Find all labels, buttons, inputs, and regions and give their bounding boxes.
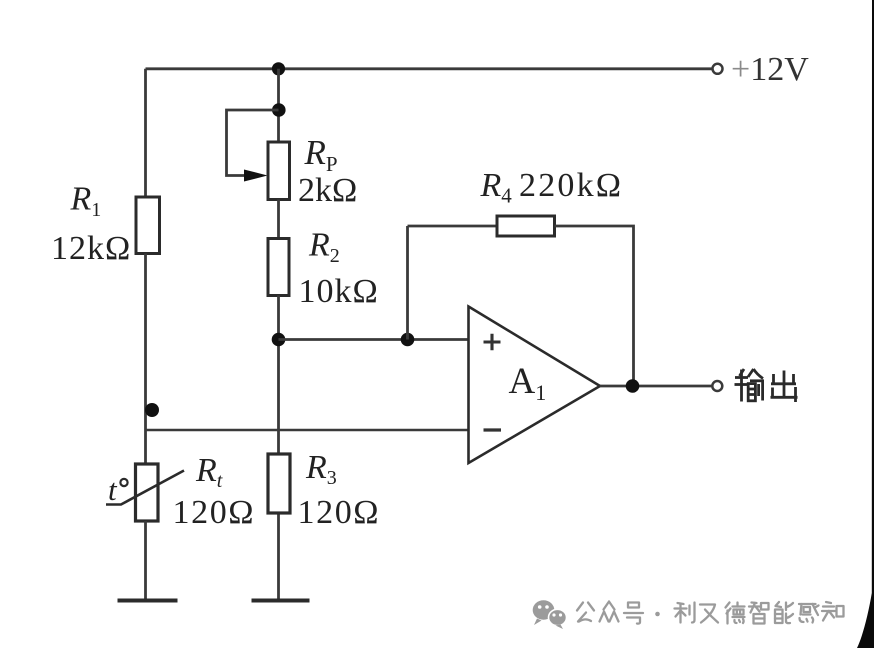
wire R3 bottom to ground	[277, 513, 280, 600]
watermark CJK gan (feel)	[799, 604, 819, 623]
watermark CJK de (virtue)	[726, 603, 745, 624]
wire left rail upper segment (top rail down to R1)	[144, 69, 147, 198]
wire potentiometer wiper loop	[227, 110, 279, 176]
watermark CJK zhi (wisdom)	[749, 603, 769, 624]
watermark CJK li (benefit)	[675, 603, 695, 623]
resistor R1 body	[136, 197, 160, 254]
svg-text:120Ω: 120Ω	[173, 494, 256, 531]
watermark CJK gong (public)	[577, 603, 594, 622]
svg-text:12kΩ: 12kΩ	[51, 230, 131, 267]
watermark CJK hao (number)	[624, 603, 643, 624]
resistor R2 body	[268, 239, 289, 296]
frame right edge black border with rounded bottom corner	[857, 0, 874, 648]
svg-text:t: t	[108, 472, 118, 507]
svg-text:Rt: Rt	[195, 452, 223, 492]
ground right bar	[252, 599, 310, 603]
wire R2 bottom down through crossing to R3 top	[277, 296, 280, 455]
wire left rail bottom segment (Rt bottom to ground)	[144, 521, 147, 600]
node E junction of noninverting wire and R4 branch	[401, 333, 415, 347]
wire R4 right horizontal and right leg down to output	[555, 226, 634, 386]
node B on left rail above inverting wire	[145, 403, 159, 417]
thermistor Rt diagonal stroke with foot	[106, 471, 184, 505]
wire inverting input horizontal from left rail to op-amp	[146, 429, 469, 431]
node A junction of top rail and RP branch	[272, 62, 285, 75]
svg-text:R1: R1	[70, 181, 102, 222]
wire left rail middle segment (R1 bottom to Rt top)	[144, 254, 147, 465]
svg-text:+12V: +12V	[731, 51, 809, 88]
wire output from op-amp apex to terminal	[600, 385, 712, 388]
svg-text:R4: R4	[480, 167, 513, 208]
node D junction R2 bottom with noninverting wire	[272, 333, 286, 347]
op-amp A1 triangle	[469, 307, 601, 464]
label output CJK chu (hand-drawn)	[771, 371, 798, 403]
svg-text:10kΩ: 10kΩ	[299, 273, 379, 310]
watermark wechat icon small bubble	[549, 609, 567, 629]
potentiometer wiper arrow head	[244, 170, 268, 182]
svg-text:2kΩ: 2kΩ	[298, 172, 357, 209]
wire RP bottom to R2 top	[277, 200, 280, 239]
thermistor Rt body	[136, 464, 159, 521]
svg-text:220kΩ: 220kΩ	[519, 167, 623, 204]
svg-text:120Ω: 120Ω	[298, 494, 381, 531]
label output CJK shu (hand-drawn)	[735, 369, 765, 402]
wire noninverting input horizontal to op-amp	[279, 338, 469, 341]
op-amp minus input sign	[484, 428, 502, 431]
terminal +12V open circle	[713, 64, 723, 74]
node F output junction with R4 leg	[626, 379, 640, 393]
watermark CJK you (again)	[700, 605, 718, 623]
svg-text:R3: R3	[305, 449, 337, 489]
watermark wechat icon big bubble	[533, 600, 555, 625]
resistor R3 body	[268, 454, 290, 513]
watermark CJK neng (ability)	[775, 602, 793, 623]
op-amp plus input sign	[484, 334, 501, 351]
ground left bar	[118, 599, 178, 603]
resistor R4 body	[497, 216, 555, 236]
svg-text:RP: RP	[304, 133, 338, 176]
wire RP branch top segment (top rail down to RP)	[277, 69, 280, 142]
potentiometer RP body	[268, 142, 290, 200]
wire R4 branch left leg up	[406, 226, 409, 340]
watermark middle dot	[655, 612, 660, 617]
wire top rail from R1 top to +12V terminal	[146, 67, 712, 70]
svg-text:R2: R2	[308, 227, 340, 268]
output terminal open circle	[712, 381, 722, 391]
watermark CJK zhong (crowd)	[600, 602, 619, 622]
node C potentiometer wiper tie point	[272, 103, 286, 117]
wire R4 left horizontal	[408, 225, 498, 228]
watermark CJK zhi (know)	[822, 602, 844, 621]
